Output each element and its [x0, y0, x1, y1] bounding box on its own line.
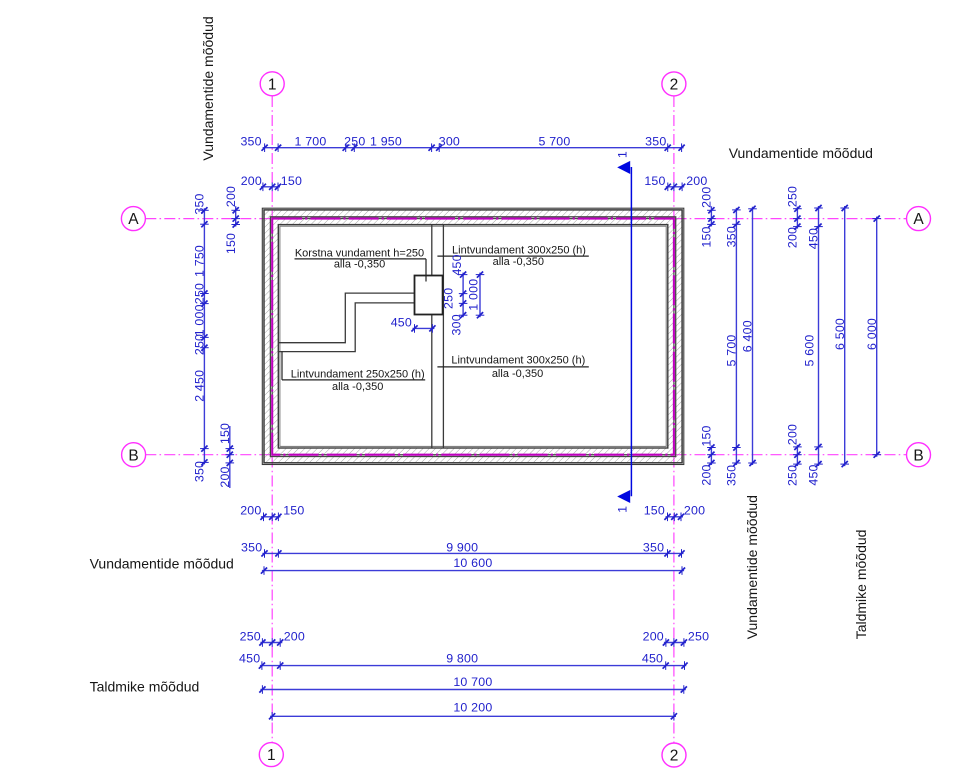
- svg-text:10 700: 10 700: [453, 675, 492, 689]
- axis rectangle dark underlay: [272, 219, 674, 455]
- svg-text:9 900: 9 900: [446, 540, 478, 554]
- svg-text:Korstna vundament h=250: Korstna vundament h=250: [295, 247, 424, 259]
- svg-text:Lintvundament 300x250 (h): Lintvundament 300x250 (h): [451, 354, 585, 366]
- svg-text:200: 200: [240, 504, 261, 518]
- dimension 200 150 top left: [241, 174, 302, 191]
- label lintvundament 300x250 upper: [437, 245, 588, 268]
- svg-text:Vundamentide mõõdud: Vundamentide mõõdud: [90, 555, 234, 571]
- dimension 150 200 bottom right: [644, 504, 705, 522]
- svg-text:1 000: 1 000: [193, 304, 207, 336]
- svg-text:6 500: 6 500: [833, 318, 847, 350]
- svg-text:1 700: 1 700: [294, 134, 326, 148]
- svg-text:250: 250: [240, 629, 261, 643]
- foundation wall outer edge: [264, 210, 682, 463]
- svg-text:1: 1: [616, 506, 630, 513]
- svg-text:9 800: 9 800: [446, 651, 478, 665]
- wall hatching ring: [264, 210, 682, 463]
- svg-text:250: 250: [441, 288, 455, 309]
- footing inner line: [280, 226, 666, 446]
- svg-text:1: 1: [616, 151, 630, 158]
- stepped strip foundation 250x250 upper line: [279, 293, 415, 343]
- svg-text:150: 150: [218, 423, 232, 444]
- svg-text:450: 450: [642, 651, 663, 665]
- svg-text:350: 350: [193, 193, 207, 214]
- svg-text:A: A: [128, 211, 139, 228]
- svg-text:200: 200: [786, 227, 800, 248]
- dimension 10600 bottom: [261, 556, 685, 575]
- axis line 2 vertical: [673, 96, 675, 743]
- svg-text:B: B: [913, 447, 923, 464]
- svg-text:150: 150: [281, 174, 302, 188]
- svg-text:150: 150: [224, 233, 238, 254]
- svg-text:2 450: 2 450: [193, 370, 207, 402]
- dimension 200 250 taldmik bottom right: [643, 629, 710, 646]
- svg-text:350: 350: [241, 540, 262, 554]
- svg-text:10 200: 10 200: [453, 701, 492, 715]
- axis bubble 1 top: [260, 72, 284, 96]
- svg-text:10 600: 10 600: [453, 556, 492, 570]
- svg-text:1 750: 1 750: [193, 245, 207, 277]
- svg-text:350: 350: [240, 134, 261, 148]
- stepped strip foundation 250x250 lower line: [279, 303, 415, 352]
- chimney foundation block: [415, 276, 443, 315]
- svg-text:250: 250: [786, 465, 800, 486]
- svg-text:6 000: 6 000: [865, 318, 879, 350]
- axis bubble 2 top: [662, 72, 686, 96]
- dimension 200 150 bottom left: [240, 504, 304, 522]
- svg-text:1: 1: [268, 76, 277, 93]
- svg-text:5 700: 5 700: [538, 134, 570, 148]
- axis bubble A right: [907, 207, 931, 231]
- svg-text:Vundamentide mõõdud: Vundamentide mõõdud: [200, 16, 216, 160]
- wall mid line outside axis: [270, 217, 675, 457]
- svg-text:150: 150: [283, 504, 304, 518]
- svg-text:250: 250: [344, 134, 365, 148]
- svg-text:250: 250: [193, 283, 207, 304]
- dimension 200 150 right wall: [700, 187, 716, 486]
- axis line A horizontal: [145, 218, 906, 220]
- svg-text:1: 1: [267, 747, 276, 764]
- svg-text:5 700: 5 700: [725, 334, 739, 366]
- dimension 150 200 left B: [218, 423, 234, 488]
- dimension 450 9800 450 bottom: [239, 651, 688, 670]
- svg-text:1 950: 1 950: [370, 134, 402, 148]
- dimension 6500 right: [833, 205, 849, 467]
- axis bubble A left: [121, 207, 145, 231]
- svg-text:200: 200: [700, 464, 714, 485]
- dimension 350 9900 350 bottom: [241, 540, 685, 557]
- caption taldmike moodud right vertical: [853, 530, 869, 640]
- svg-text:Taldmike mõõdud: Taldmike mõõdud: [853, 530, 869, 640]
- svg-text:350: 350: [725, 465, 739, 486]
- svg-text:A: A: [913, 211, 924, 228]
- foundation wall inner edge: [278, 225, 668, 448]
- dimension chain 450 5600 450 right: [803, 205, 823, 486]
- dimension chain top main: [240, 134, 684, 152]
- svg-text:350: 350: [725, 226, 739, 247]
- dimension 6400 right: [741, 206, 757, 466]
- section line 1-1: [616, 151, 632, 513]
- svg-text:150: 150: [700, 425, 714, 446]
- svg-text:300: 300: [439, 134, 460, 148]
- svg-text:Lintvundament 250x250 (h): Lintvundament 250x250 (h): [291, 369, 425, 381]
- svg-text:150: 150: [644, 504, 665, 518]
- dimension 150 200 top right: [644, 174, 707, 191]
- caption vundamentide moodud top left vertical: [200, 16, 216, 160]
- svg-text:alla -0,350: alla -0,350: [492, 368, 543, 380]
- svg-text:Lintvundament 300x250 (h): Lintvundament 300x250 (h): [452, 245, 586, 257]
- svg-text:2: 2: [670, 748, 679, 765]
- dimension 250 200 taldmik bottom left: [240, 629, 305, 646]
- svg-text:200: 200: [686, 174, 707, 188]
- label lintvundament 250x250: [282, 352, 425, 393]
- svg-text:350: 350: [645, 134, 666, 148]
- svg-text:200: 200: [786, 424, 800, 445]
- svg-text:200: 200: [643, 629, 664, 643]
- svg-text:350: 350: [643, 540, 664, 554]
- dimension chain left overall: [193, 193, 209, 482]
- footing outline (outer): [262, 208, 684, 464]
- dimension 10700 bottom: [259, 675, 687, 694]
- svg-text:B: B: [128, 447, 138, 464]
- svg-text:450: 450: [391, 316, 412, 330]
- svg-text:350: 350: [193, 461, 207, 482]
- dimension 450 below block: [391, 316, 436, 333]
- dimension chain 450 250 300 at block: [441, 254, 467, 335]
- svg-text:alla -0,350: alla -0,350: [334, 259, 385, 271]
- svg-text:250: 250: [688, 629, 709, 643]
- svg-text:450: 450: [239, 651, 260, 665]
- svg-text:450: 450: [450, 254, 464, 275]
- svg-text:Vundamentide mõõdud: Vundamentide mõõdud: [744, 495, 760, 639]
- axis line B horizontal: [145, 454, 906, 456]
- axis bubble 1 bottom: [259, 743, 283, 767]
- dimension 1000 at block: [466, 272, 484, 319]
- svg-text:200: 200: [218, 466, 232, 487]
- svg-text:1 000: 1 000: [466, 279, 480, 311]
- dimension 6000 right: [865, 216, 881, 458]
- axis line 1 vertical: [271, 96, 273, 743]
- label lintvundament 300x250 lower: [437, 354, 588, 380]
- svg-text:Vundamentide mõõdud: Vundamentide mõõdud: [729, 145, 873, 161]
- axis bubble 2 bottom: [662, 743, 686, 767]
- dimension chain 350 5700 350 right: [725, 207, 741, 486]
- caption vundamentide moodud top right: [729, 145, 873, 161]
- svg-text:450: 450: [807, 464, 821, 485]
- caption vundamentide moodud right vertical: [744, 495, 760, 639]
- axis bubble B left: [122, 443, 146, 467]
- caption vundamentide moodud bottom left: [90, 555, 234, 571]
- svg-text:2: 2: [670, 77, 679, 94]
- svg-text:200: 200: [284, 629, 305, 643]
- svg-text:200: 200: [700, 187, 714, 208]
- axis bubble B right: [907, 443, 931, 467]
- svg-text:200: 200: [241, 174, 262, 188]
- svg-text:alla -0,350: alla -0,350: [493, 256, 544, 268]
- svg-text:250: 250: [193, 334, 207, 355]
- svg-text:200: 200: [224, 186, 238, 207]
- dimension 250 200 taldmik right: [786, 186, 802, 486]
- svg-text:6 400: 6 400: [741, 320, 755, 352]
- interior strip foundation vertical 300x250: [432, 225, 444, 448]
- svg-text:alla -0,350: alla -0,350: [332, 381, 383, 393]
- label korstna vundament: [295, 247, 427, 281]
- svg-text:200: 200: [684, 504, 705, 518]
- svg-text:5 600: 5 600: [803, 334, 817, 366]
- svg-text:150: 150: [644, 174, 665, 188]
- axis rectangle thick magenta: [272, 219, 674, 455]
- svg-text:250: 250: [786, 186, 800, 207]
- svg-text:Taldmike mõõdud: Taldmike mõõdud: [90, 679, 200, 695]
- dimension 200 150 left A: [224, 186, 240, 254]
- dimension 10200 bottom: [269, 701, 677, 721]
- svg-text:300: 300: [449, 314, 463, 335]
- svg-text:150: 150: [700, 226, 714, 247]
- caption taldmike moodud bottom left: [90, 679, 200, 695]
- svg-text:450: 450: [807, 228, 821, 249]
